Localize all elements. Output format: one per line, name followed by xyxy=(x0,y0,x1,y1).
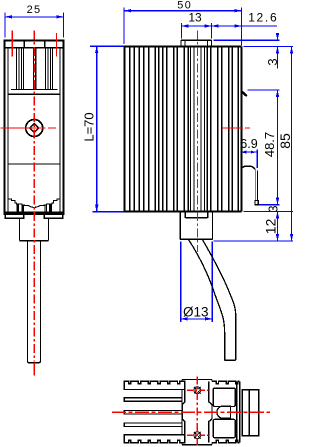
dim 3 foot clearance xyxy=(259,204,280,206)
centerline front view clip horizontal xyxy=(222,127,252,129)
dim 6.9 clip depth xyxy=(256,150,258,169)
bottom view end cap xyxy=(242,390,259,436)
bottom view fin bar 5 xyxy=(124,435,185,443)
svg-text:6.9: 6.9 xyxy=(240,137,257,151)
centerline bottom view screw 1 horizontal xyxy=(187,389,208,391)
side view flange ears xyxy=(5,214,24,218)
side view cable gland block xyxy=(19,218,21,240)
front view din clip foot xyxy=(255,200,258,204)
bottom view fin bar 3 xyxy=(124,411,182,415)
dim 25 width of side view xyxy=(4,13,6,38)
bottom view housing end wall xyxy=(236,381,238,442)
side view fin base lines xyxy=(11,89,58,91)
centerline bottom view vertical xyxy=(196,377,198,446)
dim 50 width of front view xyxy=(123,8,125,45)
side view bottom contour xyxy=(8,199,60,207)
dim 13 top tab width xyxy=(180,23,182,39)
bottom view cable bushing xyxy=(223,406,230,418)
front view din clip spring xyxy=(241,166,255,169)
bottom view housing top edge xyxy=(212,381,240,383)
centerline side view vertical xyxy=(33,31,35,362)
dim 12.6 tab to edge xyxy=(212,25,277,27)
side view cable xyxy=(28,241,41,363)
svg-text:12.6: 12.6 xyxy=(248,11,278,25)
bottom view housing bottom edge xyxy=(212,440,240,442)
bottom view fin base wall xyxy=(181,390,183,435)
front view top edge xyxy=(124,46,241,48)
front view cable gland block xyxy=(179,212,181,240)
dim diameter 13 cable xyxy=(180,241,182,322)
centerline side view right fin tick xyxy=(55,33,57,57)
bottom view screw hole 2 xyxy=(194,432,201,439)
front view fins xyxy=(123,47,125,212)
bottom view terminal slot 1 xyxy=(213,388,235,406)
front view din clip top hook xyxy=(241,91,246,96)
dim L=70 body length xyxy=(90,45,124,47)
centerline side view left fin tick xyxy=(11,31,13,57)
svg-text:Ø13: Ø13 xyxy=(183,304,209,319)
dim 3 tab height xyxy=(214,39,280,41)
svg-text:85: 85 xyxy=(277,133,293,149)
front view top tab xyxy=(181,39,212,41)
side view mid line xyxy=(8,163,60,165)
centerline front view vertical xyxy=(196,31,198,253)
side view inner walls xyxy=(7,48,9,212)
side view fins xyxy=(16,48,18,90)
front view bottom edge xyxy=(124,211,241,213)
bottom view fin bar 4 xyxy=(124,423,182,427)
centerline bottom view screw 2 horizontal xyxy=(187,434,208,436)
bottom view terminal slot 2 xyxy=(213,419,235,437)
side view top bar xyxy=(5,47,64,49)
side view body outline xyxy=(5,41,64,215)
side view bottom floor xyxy=(5,212,64,215)
bottom view screw hole 1 xyxy=(194,387,201,394)
svg-text:13: 13 xyxy=(188,11,202,25)
svg-text:3: 3 xyxy=(265,58,280,65)
svg-text:48.7: 48.7 xyxy=(262,132,277,157)
front view bottom tab xyxy=(184,212,186,218)
dim 85 overall height xyxy=(291,47,293,241)
centerline side view screw horizontal xyxy=(1,127,58,129)
bottom view fin bar 1 xyxy=(124,381,185,389)
side view screw boss xyxy=(26,120,43,137)
dim 12 gland height xyxy=(243,211,293,213)
svg-text:12: 12 xyxy=(262,218,278,234)
centerline bottom view horizontal xyxy=(112,411,270,413)
svg-text:L=70: L=70 xyxy=(81,112,96,141)
bottom view fin bar 2 xyxy=(124,398,182,402)
svg-text:25: 25 xyxy=(27,4,42,16)
front view din channel walls xyxy=(190,47,192,212)
front view cable xyxy=(188,239,235,360)
dim 48.7 clip span xyxy=(248,89,280,91)
bottom view screw column xyxy=(182,381,185,442)
